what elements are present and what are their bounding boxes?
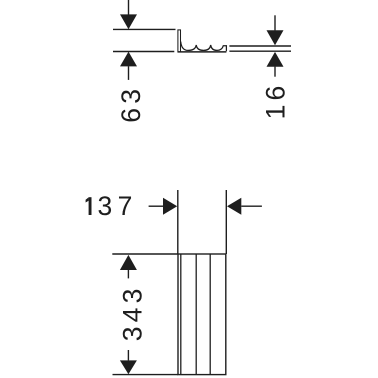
svg-text:3: 3 [98, 191, 113, 221]
svg-text:63: 63 [116, 85, 146, 123]
svg-text:343: 343 [118, 284, 148, 341]
svg-text:16: 16 [261, 82, 291, 120]
svg-text:7: 7 [118, 191, 133, 221]
